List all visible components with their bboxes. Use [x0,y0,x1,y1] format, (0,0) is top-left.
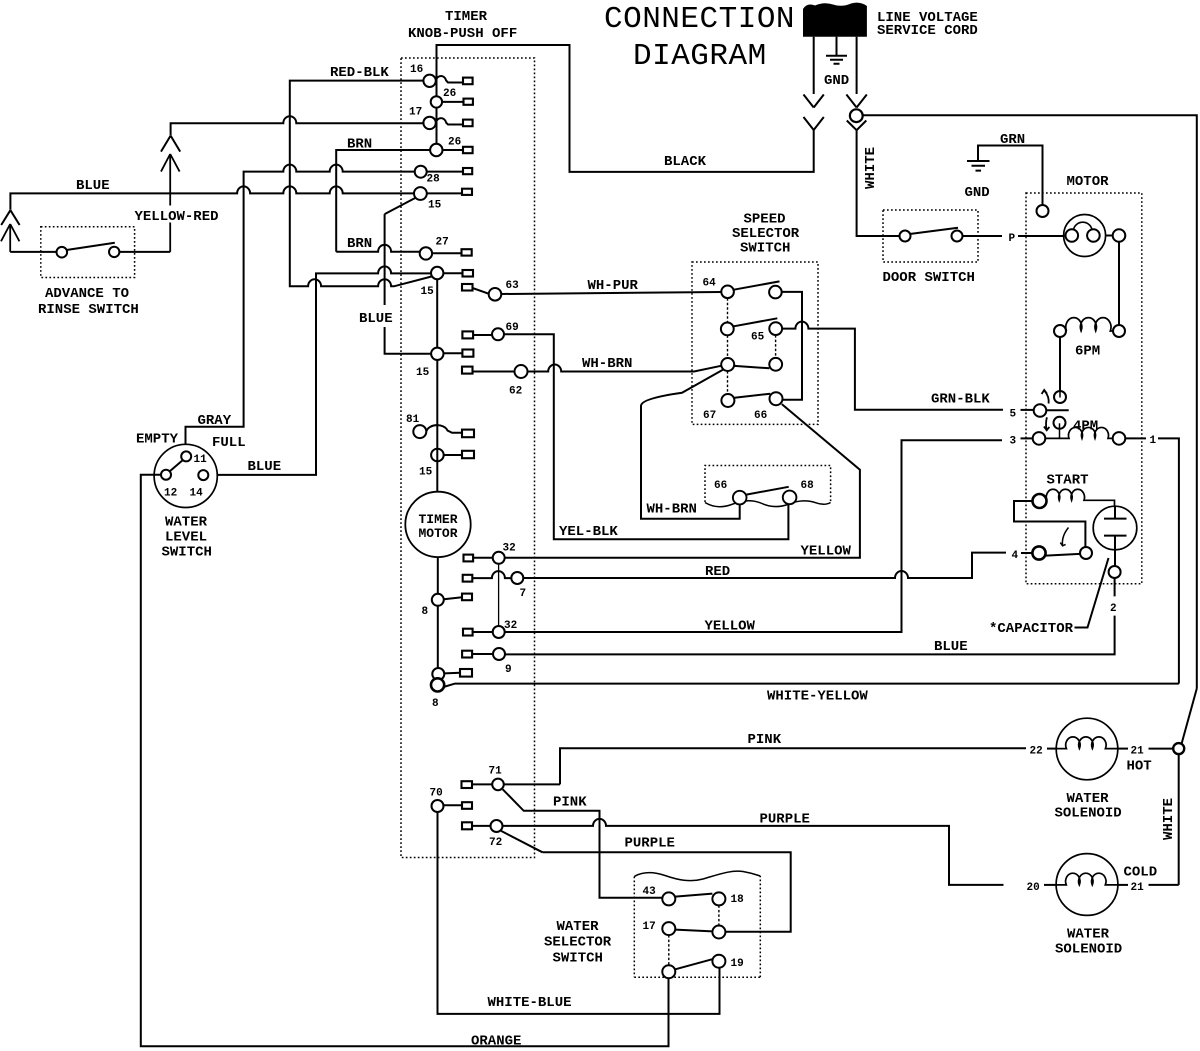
cold solenoid coil [1056,873,1118,885]
wire BLUE-3 vertical (15-1 diag down to 15-3 corner) [384,214,386,305]
wire BLUE-1 net (left edge to 15-1) [10,186,414,209]
tab 63 [462,284,473,291]
label WATER SOLENOID (hot) [1055,791,1122,822]
wire tab to 71 [472,783,492,785]
wire WHITE down to door switch [857,130,900,236]
wire BLUE-4 net (9 to capacitor 2) [505,578,1115,654]
wire tab through terminal 62 [473,371,515,373]
svg-text:SOLENOID: SOLENOID [1055,806,1122,822]
svg-text:WATER: WATER [1067,927,1110,943]
6PM left terminal [1054,325,1066,337]
svg-text:72: 72 [489,837,502,849]
WLS terminal 12 [161,470,171,480]
motor inner contact right [1087,229,1100,242]
tab 15-3 [462,350,473,357]
terminal grn inside motor [1037,205,1049,217]
svg-text:BLUE: BLUE [248,459,282,475]
connector chevron (left receptacle) [804,117,824,130]
tab 16 [463,78,473,85]
svg-text:BLUE: BLUE [359,311,393,327]
terminal 32-1 [493,552,505,564]
svg-text:32: 32 [504,620,517,632]
svg-text:67: 67 [703,410,716,422]
svg-text:68: 68 [801,480,815,492]
wire 26b to tab [443,149,464,151]
terminal 71 [492,779,504,791]
svg-text:EMPTY: EMPTY [136,432,179,448]
svg-text:26: 26 [448,137,461,149]
motor box [1026,193,1142,584]
wire 15-2 net from WLS contact 14 [208,266,431,474]
wire 69 net to YEL-BLK corner [504,334,788,539]
4PM coil [1045,427,1112,438]
wire 6PM left down to contact [1059,337,1061,391]
wire start switch U-path [1014,501,1085,547]
wire solenoid to 21 cold [1118,884,1128,886]
wire 21 to white junction [1149,748,1174,750]
svg-text:26: 26 [443,88,456,100]
terminal 62 [515,365,528,378]
terminal 43 [662,892,675,905]
svg-text:63: 63 [506,280,520,292]
wire blue arrow to adv switch [10,251,56,253]
tab 15-2 [463,270,474,277]
wire 21 cold to white vertical [1149,884,1179,886]
leader line to capacitor [1075,558,1109,628]
svg-text:18: 18 [731,894,745,906]
svg-text:66: 66 [754,410,767,422]
svg-text:WH-PUR: WH-PUR [588,278,639,294]
wire 15-1 to tab [427,192,462,194]
svg-text:21: 21 [1131,746,1145,758]
wire PURPLE-2 net (junction to water selector 18 pole) [543,852,791,931]
tab 26a [464,99,473,105]
svg-text:12: 12 [164,488,177,500]
svg-text:HOT: HOT [1127,759,1152,775]
terminal 8b1 [432,668,444,680]
wire tab to terminal 63 [473,288,490,294]
label WATER SOLENOID (cold) [1055,927,1122,958]
tab 81 [462,430,474,438]
wire GRN net [978,146,1043,205]
wire 17 to tab (hop over vertical) [436,118,463,124]
terminal adv left [57,247,68,258]
svg-text:YELLOW: YELLOW [705,619,756,635]
wire 27 to tab [432,252,461,254]
terminal 28 [415,166,427,178]
svg-text:WHITE-YELLOW: WHITE-YELLOW [767,689,868,705]
wire BRN-1 net (to 26b) [336,150,430,252]
tab 69 [462,331,473,338]
svg-text:DIAGRAM: DIAGRAM [633,39,767,74]
ground symbol (GRN) [967,161,990,171]
label ADVANCE TO RINSE SWITCH [38,286,139,318]
terminal 15-1 [414,187,427,200]
terminal 26b [430,144,442,156]
svg-text:8: 8 [422,606,429,618]
line-cord plug (black) [803,3,867,37]
wire tab to 7 with hop over 32-link [472,571,511,578]
terminal 63 [489,288,502,301]
terminal 17w [662,922,675,935]
svg-text:62: 62 [509,386,522,398]
tick inside upper contact [1059,392,1061,398]
terminal 15-3 [431,348,443,360]
svg-text:9: 9 [505,664,512,676]
water selector switch box (wavy top) [634,876,760,977]
wire 71 right to pink corner [504,783,560,785]
svg-text:17: 17 [409,107,422,119]
svg-text:YELLOW: YELLOW [801,544,852,560]
wire white junction down to cold line [1178,754,1180,885]
wire tab to terminal 69 [473,334,492,336]
svg-text:START: START [1047,473,1089,489]
terminal 26a [431,96,442,107]
node terminal circle (white wire junction) [850,109,863,122]
blade 66b-68b [746,487,788,495]
wire plug right prong [856,37,858,94]
terminal 8a [432,594,444,606]
wire timer inner vertical (16-17-26) [436,45,438,150]
capacitor terminal 2 [1109,566,1121,578]
svg-text:81: 81 [406,414,420,426]
wire WH-PUR net (63 to 64) [501,292,721,294]
label TIMER KNOB-PUSH OFF [408,9,517,42]
terminal pole r1 [769,286,782,299]
door switch box [883,210,978,262]
wire 15-2 to tab [443,272,462,274]
terminal 17w pole [662,965,675,978]
connector arrow (right prong, pointing down) [846,95,866,108]
terminal 19 [712,955,725,968]
svg-text:WHITE: WHITE [863,147,879,189]
WLS terminal 14 [198,470,208,480]
svg-text:P: P [1009,233,1016,245]
wire BRN-2 net (to 27) [336,245,420,252]
hot solenoid coil [1056,737,1118,749]
terminal 65 [769,322,782,335]
start winding left terminal (bold) [1033,494,1047,508]
svg-text:RED: RED [705,564,730,580]
svg-text:FULL: FULL [212,435,246,451]
svg-text:KNOB-PUSH OFF: KNOB-PUSH OFF [408,26,517,42]
blade 43-18 [675,894,712,897]
svg-text:27: 27 [436,237,449,249]
4PM right terminal [1113,432,1126,445]
wire plug left prong [813,37,815,94]
terminal 72 [491,820,503,832]
terminal 3 [1033,432,1046,445]
connector arrow (yellow-red, pointing up) [161,154,180,252]
wire BLACK net: chevron down, left to timer top [437,45,814,172]
terminal 69 [492,328,504,340]
svg-text:2: 2 [1110,603,1117,615]
wire dash 4 [1021,552,1032,554]
wire 15-4 to tab [444,454,462,456]
terminal 8b2 (bold) [431,678,444,691]
svg-text:1: 1 [1150,435,1157,447]
blade 19 [675,959,712,969]
svg-text:TIMER: TIMER [419,512,458,527]
wire 15-3 down to timer motor [436,360,438,492]
svg-text:MOTOR: MOTOR [1067,174,1110,190]
advance-to-rinse switch box [41,227,135,278]
cold water solenoid circle [1056,854,1118,916]
svg-text:64: 64 [703,278,717,290]
svg-text:GRN: GRN [1000,132,1025,148]
svg-text:PINK: PINK [748,732,782,748]
svg-text:5: 5 [1010,409,1017,421]
switch blade (advance) [67,243,115,250]
WLS blade 12-11 [170,460,183,471]
tab 9 [462,651,472,658]
svg-text:66: 66 [714,480,727,492]
start switch moving contact [1080,547,1092,559]
terminal 15-2 [431,267,443,279]
svg-text:3: 3 [1010,436,1017,448]
water level switch circle [154,444,217,507]
wire 81 to tab (hop over vertical) [426,425,462,433]
terminal 17 [423,117,435,129]
svg-text:ORANGE: ORANGE [471,1034,521,1050]
blade door switch [911,228,958,234]
wire WHITE-YELLOW net (8b2 to trunk) [444,684,1179,687]
terminal 68b [783,491,797,505]
hot water solenoid circle [1056,718,1118,780]
svg-text:PURPLE: PURPLE [625,836,675,852]
wire right contact down to 6PM [1118,242,1120,325]
svg-text:GRAY: GRAY [198,413,232,429]
wire 32-1 to 32-2 link [498,564,500,626]
terminal 4 (bold) [1032,546,1045,559]
centrifugal contact lower [1054,417,1066,429]
link 17w to pole [668,935,670,965]
terminal door left [900,231,911,242]
capacitor plates [1104,506,1127,549]
wire RED net (7 to 4) [523,553,1006,578]
wire dash 22 to solenoid [1047,748,1056,750]
wire RED-BLK net [290,81,432,287]
svg-text:YEL-BLK: YEL-BLK [559,524,618,540]
wire blue diagonal into 15-1 [385,198,416,214]
svg-text:71: 71 [489,766,503,778]
terminal 16 [423,75,435,87]
svg-text:17: 17 [643,921,656,933]
terminal 67 [721,394,734,407]
6PM right terminal [1113,325,1125,337]
terminal 64 [721,286,734,299]
connector arrow (left prong, pointing down) [804,95,824,108]
terminal 81 [413,425,426,438]
tab 26b [463,147,473,153]
tab 15-1 [462,189,472,195]
wire 15-2 to 15-3 vertical [436,279,438,348]
wire WH-BRN-1 net (62 to speed pole 3) [528,365,722,372]
tab 28 [463,168,472,174]
terminal 9 [493,648,505,660]
svg-text:WATER: WATER [557,919,600,935]
svg-text:22: 22 [1030,746,1043,758]
label LINE VOLTAGE SERVICE CORD [877,10,978,39]
svg-text:BLUE: BLUE [76,178,110,194]
wire main circle to right contact [1106,235,1113,237]
svg-text:LEVEL: LEVEL [165,530,207,546]
svg-text:65: 65 [751,332,765,344]
link 18 to pole [718,905,720,925]
ground symbol at plug [826,37,847,64]
wire door to P to motor [963,235,1003,237]
label WATER SELECTOR SWITCH [544,919,612,967]
svg-text:15: 15 [419,467,433,479]
terminal 66b [733,491,747,505]
blade r3 [734,366,769,368]
wire PINK-2 net (71 blade to purple junction) [503,789,663,898]
tab 72 [462,822,472,829]
wire tab to 72 [472,825,491,827]
svg-text:15: 15 [416,367,430,379]
connector chevron (yellow-red, up) [161,136,180,152]
terminal door right [952,231,963,242]
tab 32-1 [464,555,474,562]
svg-text:BLUE: BLUE [934,639,968,655]
terminal 5 [1034,404,1047,417]
svg-text:16: 16 [410,64,423,76]
wire timer motor down through 8 to 8b [437,557,439,668]
6PM coil [1066,318,1113,331]
link p3-67 [727,371,729,394]
wire 70 to tab [444,804,463,806]
wire r1 to 66s via right side [782,292,802,400]
svg-text:RED-BLK: RED-BLK [330,65,389,81]
svg-text:DOOR SWITCH: DOOR SWITCH [883,270,975,286]
wire stub right of terminal 5 [1046,409,1068,411]
svg-text:WH-BRN: WH-BRN [647,502,697,518]
svg-text:7: 7 [520,588,527,600]
svg-text:SWITCH: SWITCH [553,951,603,967]
wire tab through 32-2 (YELLOW2 start) [473,631,493,633]
svg-text:11: 11 [194,454,208,466]
svg-text:SERVICE CORD: SERVICE CORD [877,23,978,39]
motor right contact [1113,229,1126,242]
wire BLUE-3 lower to 15-3 [385,327,432,354]
link 65-r3 [775,335,777,358]
motor main circle [1064,215,1106,257]
label WATER LEVEL SWITCH [162,515,212,561]
svg-text:6PM: 6PM [1075,344,1100,360]
tab 8a [462,594,472,601]
speed selector switch box [692,262,818,424]
svg-text:BLACK: BLACK [664,154,707,170]
svg-text:21: 21 [1131,882,1145,894]
terminal 7 [511,572,523,584]
label YELLOW-RED [133,206,219,223]
terminal 32-2 [493,626,505,638]
svg-text:TIMER: TIMER [445,9,488,25]
blade 67-66s [735,394,771,398]
connector chevron (blue left, up) [1,210,19,225]
svg-text:BRN: BRN [347,236,372,252]
motor inner contact left [1066,229,1079,242]
svg-text:8: 8 [432,698,439,710]
wire adv switch to arrow [120,251,171,253]
terminal 18 pole [712,926,725,939]
wire YELLOW-2 net (32-2 to motor 3) [505,440,1002,632]
blade 72 to purple junction [501,831,542,852]
wire dash 3 to terminal [1021,437,1033,439]
wire 26a to tab [442,101,463,103]
blade 65 [734,318,778,326]
tab 15-4 [462,451,474,458]
terminal 70 [432,800,444,812]
wire 15-3 to tab [444,352,463,354]
centrifugal contact upper [1054,391,1066,403]
svg-text:69: 69 [506,322,519,334]
svg-text:WHITE-BLUE: WHITE-BLUE [488,995,572,1011]
wire P into motor [1018,235,1065,237]
wire tab through 9 (BLUE4 start) [472,653,493,655]
svg-text:WATER: WATER [165,515,208,531]
tab 27 [462,249,472,255]
label SPEED SELECTOR SWITCH [732,212,800,257]
blade 4 to moving contact [1046,554,1080,556]
actuator arrow (start switch) [1062,528,1068,546]
svg-text:SELECTOR: SELECTOR [544,935,612,951]
timer motor circle [405,492,470,557]
svg-text:MOTOR: MOTOR [419,526,458,541]
wire tab through 32-1 (YELLOW start) [473,557,493,559]
terminal adv right [109,247,119,257]
start coil [1046,489,1114,506]
svg-text:YELLOW-RED: YELLOW-RED [135,209,219,225]
svg-text:19: 19 [731,958,744,970]
blade white trunk to junction [1182,689,1197,744]
svg-text:15: 15 [428,200,442,212]
terminal 27 [420,247,432,259]
wire PINK-1 net (71 up and right to hot solenoid) [560,748,1026,784]
svg-text:GRN-BLK: GRN-BLK [931,392,990,408]
svg-text:PURPLE: PURPLE [760,812,810,828]
tab 7 [463,575,473,582]
tab 17 [463,120,473,127]
wire 28 to tab [427,171,463,173]
tab 70 [462,802,472,809]
connector arrow (blue left, pointing up) [1,224,19,252]
svg-text:WH-BRN: WH-BRN [582,356,632,372]
wire solenoid to 21 [1118,748,1128,750]
wire 16 to tab (hop over vertical) [436,76,463,82]
svg-text:ADVANCE TO: ADVANCE TO [45,286,129,302]
link p2-p3 [727,335,729,358]
svg-text:RINSE SWITCH: RINSE SWITCH [38,302,139,318]
svg-text:WHITE: WHITE [1161,798,1177,840]
WLS terminal 11 [181,451,191,461]
connector chevron (right receptacle) [847,121,867,131]
svg-text:COLD: COLD [1124,865,1158,881]
wire GRAY net (28 line to WLS 11) [186,165,415,452]
wire 1 net (4PM to right trunk) [1125,437,1146,439]
tab 71 [462,781,473,788]
wire PURPLE-1 net (72 to cold solenoid) [503,819,1004,885]
svg-text:32: 32 [503,543,516,555]
title CONNECTION DIAGRAM [604,2,795,74]
terminal white junction (bold) [1173,743,1184,754]
svg-text:CONNECTION: CONNECTION [604,2,795,37]
wire dash to motor 5 [1021,409,1034,411]
wire 65 to GRN-BLK (hop over right side wire) [782,322,1003,410]
wire 8a to tab [444,597,462,599]
svg-text:GND: GND [824,73,849,89]
terminal 18 [712,892,725,905]
